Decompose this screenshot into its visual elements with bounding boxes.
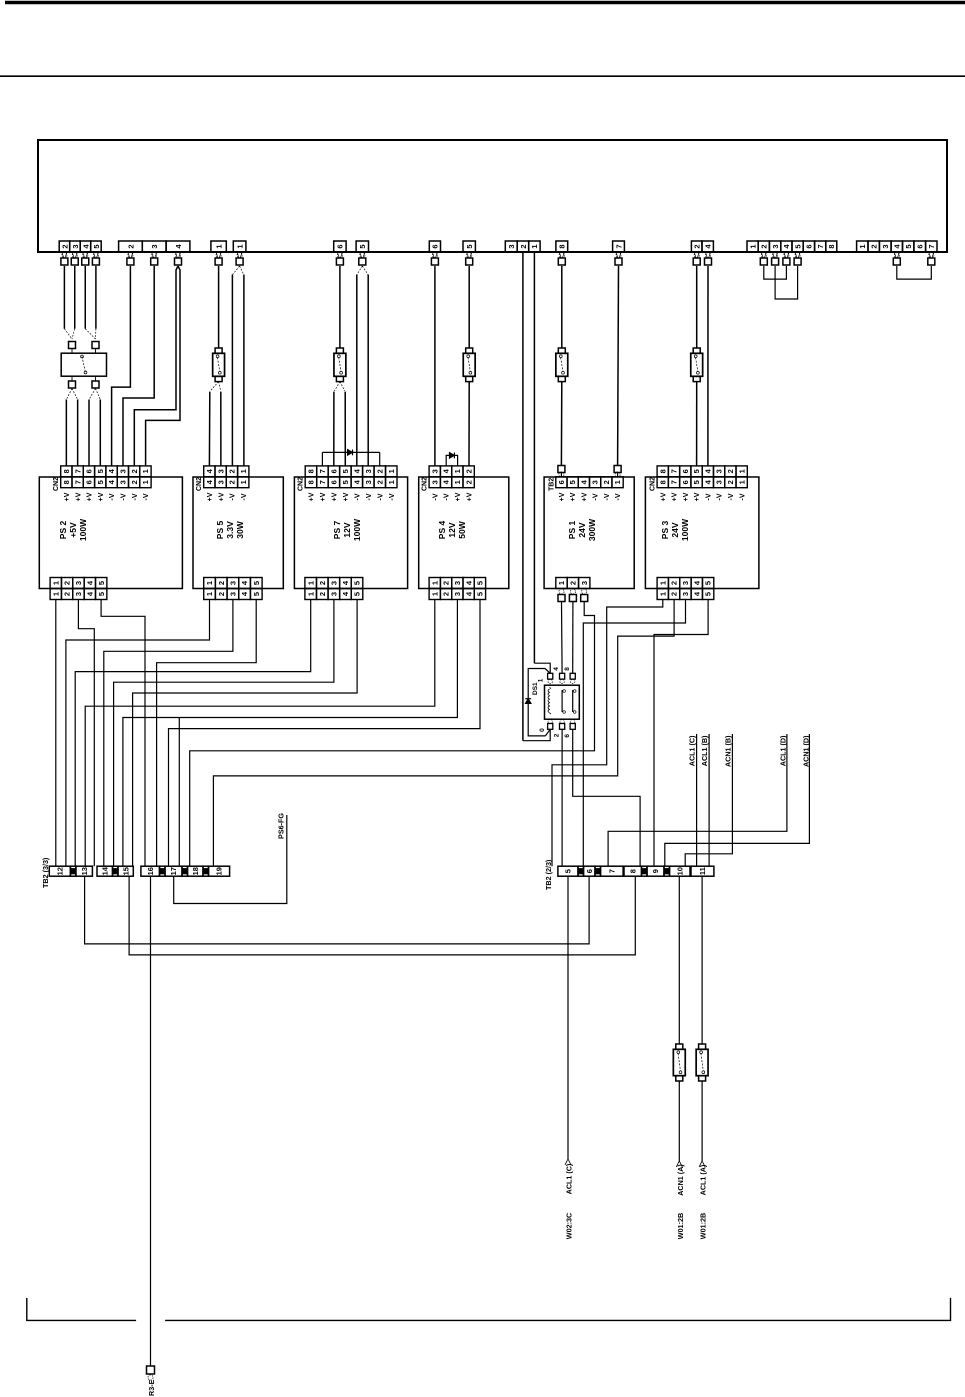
svg-text:24V: 24V	[670, 522, 680, 537]
svg-text:2: 2	[693, 244, 702, 248]
svg-text:16: 16	[146, 867, 155, 875]
svg-text:3: 3	[580, 581, 589, 585]
svg-text:4: 4	[704, 244, 713, 249]
svg-text:1: 1	[858, 244, 867, 248]
svg-text:2: 2	[670, 592, 679, 596]
svg-text:4: 4	[85, 591, 94, 596]
svg-text:1: 1	[453, 469, 462, 473]
svg-text:-V: -V	[143, 493, 150, 500]
svg-text:PS 3: PS 3	[660, 521, 670, 540]
svg-text:1: 1	[51, 581, 60, 585]
svg-text:4: 4	[464, 580, 473, 585]
svg-text:+V: +V	[455, 492, 462, 501]
svg-text:3: 3	[229, 592, 238, 596]
svg-text:1: 1	[737, 480, 746, 484]
svg-text:19: 19	[215, 867, 224, 875]
svg-text:1: 1	[530, 244, 539, 248]
svg-text:+V: +V	[660, 492, 667, 501]
svg-text:PS 4: PS 4	[437, 521, 447, 540]
svg-text:5: 5	[476, 592, 485, 596]
svg-text:3: 3	[453, 592, 462, 596]
svg-text:5: 5	[793, 244, 802, 248]
svg-text:ACL1 (C): ACL1 (C)	[688, 735, 697, 766]
svg-text:2: 2	[130, 469, 139, 473]
svg-text:6: 6	[681, 480, 690, 484]
svg-text:4: 4	[205, 479, 214, 484]
svg-text:8: 8	[558, 244, 567, 248]
svg-text:7: 7	[73, 469, 82, 473]
svg-text:9: 9	[651, 869, 660, 873]
svg-text:4: 4	[692, 580, 701, 585]
svg-text:PS 5: PS 5	[215, 521, 225, 540]
svg-text:1: 1	[51, 592, 60, 596]
svg-text:-V: -V	[366, 493, 373, 500]
svg-text:2: 2	[519, 244, 528, 248]
svg-text:5: 5	[96, 480, 105, 484]
svg-text:3: 3	[329, 592, 338, 596]
svg-text:1: 1	[205, 581, 214, 585]
svg-text:3: 3	[681, 592, 690, 596]
svg-text:4: 4	[782, 244, 791, 249]
svg-text:4: 4	[107, 468, 116, 473]
svg-text:DS1: DS1	[532, 682, 539, 695]
svg-text:4: 4	[692, 591, 701, 596]
svg-text:11: 11	[698, 867, 707, 875]
svg-text:1: 1	[239, 480, 248, 484]
svg-text:+V: +V	[75, 492, 82, 501]
svg-text:+V: +V	[218, 492, 225, 501]
svg-text:2: 2	[217, 592, 226, 596]
svg-text:5: 5	[704, 592, 713, 596]
svg-text:4: 4	[352, 468, 361, 473]
svg-text:7: 7	[927, 244, 936, 248]
svg-text:1: 1	[205, 592, 214, 596]
svg-text:2: 2	[726, 469, 735, 473]
svg-text:4: 4	[442, 479, 451, 484]
svg-text:+V: +V	[207, 492, 214, 501]
svg-text:-V: -V	[354, 493, 361, 500]
svg-text:6: 6	[557, 480, 566, 484]
svg-text:-V: -V	[132, 493, 139, 500]
svg-text:+V: +V	[570, 492, 577, 501]
svg-text:4: 4	[174, 244, 183, 249]
svg-text:2: 2	[375, 480, 384, 484]
svg-text:5: 5	[692, 469, 701, 473]
svg-text:PS 7: PS 7	[332, 521, 342, 540]
svg-text:CN2: CN2	[298, 477, 305, 491]
svg-text:6: 6	[85, 469, 94, 473]
svg-text:100W: 100W	[680, 518, 690, 541]
svg-text:4: 4	[107, 479, 116, 484]
svg-text:3: 3	[364, 469, 373, 473]
svg-text:8: 8	[827, 244, 836, 248]
svg-text:2: 2	[60, 244, 69, 248]
svg-text:2: 2	[760, 244, 769, 248]
svg-text:-V: -V	[230, 493, 237, 500]
svg-text:PS 2: PS 2	[58, 521, 68, 540]
svg-text:3: 3	[715, 480, 724, 484]
svg-text:ACL1 (B): ACL1 (B)	[700, 735, 709, 766]
svg-text:3: 3	[118, 480, 127, 484]
svg-text:2: 2	[318, 581, 327, 585]
svg-text:+V: +V	[87, 492, 94, 501]
svg-text:2: 2	[375, 469, 384, 473]
svg-text:+V: +V	[466, 492, 473, 501]
svg-text:2: 2	[726, 480, 735, 484]
svg-text:-V: -V	[739, 493, 746, 500]
svg-text:15: 15	[121, 867, 130, 875]
svg-text:3: 3	[364, 480, 373, 484]
svg-text:17: 17	[169, 867, 178, 875]
svg-text:-V: -V	[389, 493, 396, 500]
svg-text:1: 1	[239, 469, 248, 473]
svg-text:3: 3	[771, 244, 780, 248]
svg-text:1: 1	[658, 581, 667, 585]
svg-text:6: 6	[805, 244, 814, 248]
svg-text:-V: -V	[705, 493, 712, 500]
svg-text:2: 2	[553, 733, 560, 737]
svg-text:3: 3	[229, 581, 238, 585]
svg-text:100W: 100W	[352, 518, 362, 541]
svg-text:5: 5	[692, 480, 701, 484]
svg-text:1: 1	[306, 592, 315, 596]
svg-text:CN2: CN2	[53, 477, 60, 491]
svg-text:14: 14	[100, 866, 109, 875]
svg-text:5: 5	[97, 581, 106, 585]
svg-text:2: 2	[442, 592, 451, 596]
svg-text:6: 6	[564, 734, 571, 738]
svg-text:+V: +V	[694, 492, 701, 501]
svg-text:6: 6	[681, 469, 690, 473]
svg-text:ACL1 (C): ACL1 (C)	[565, 1163, 574, 1194]
svg-text:5: 5	[341, 480, 350, 484]
svg-text:5: 5	[568, 480, 577, 484]
svg-text:PS 1: PS 1	[567, 521, 577, 540]
svg-text:W01:2B: W01:2B	[699, 1213, 708, 1239]
svg-text:1: 1	[235, 244, 244, 248]
svg-text:-V: -V	[717, 493, 724, 500]
svg-text:-V: -V	[241, 493, 248, 500]
svg-text:1: 1	[306, 581, 315, 585]
svg-text:+V: +V	[559, 492, 566, 501]
svg-text:0: 0	[539, 728, 546, 732]
svg-text:4: 4	[553, 667, 560, 671]
svg-text:1: 1	[537, 678, 544, 682]
svg-text:TB2 (2/3): TB2 (2/3)	[544, 859, 553, 890]
svg-text:4: 4	[341, 580, 350, 585]
svg-text:2: 2	[442, 581, 451, 585]
svg-text:-V: -V	[120, 493, 127, 500]
svg-text:5: 5	[704, 581, 713, 585]
svg-text:8: 8	[62, 480, 71, 484]
svg-text:4: 4	[579, 479, 588, 484]
svg-text:6: 6	[585, 869, 594, 873]
svg-text:+V: +V	[98, 492, 105, 501]
svg-text:+5V: +5V	[68, 522, 78, 538]
svg-text:-V: -V	[109, 493, 116, 500]
svg-text:-V: -V	[377, 493, 384, 500]
svg-text:2: 2	[870, 244, 879, 248]
svg-text:3: 3	[216, 469, 225, 473]
svg-text:ACN1 (A): ACN1 (A)	[676, 1164, 685, 1196]
svg-text:5: 5	[564, 869, 573, 873]
svg-text:3: 3	[329, 581, 338, 585]
svg-text:5: 5	[97, 592, 106, 596]
svg-text:3: 3	[74, 592, 83, 596]
svg-text:-V: -V	[432, 493, 439, 500]
svg-text:12V: 12V	[342, 522, 352, 537]
svg-text:ACN1 (B): ACN1 (B)	[724, 735, 733, 767]
svg-text:PS6-FG: PS6-FG	[277, 813, 286, 839]
svg-text:6: 6	[329, 480, 338, 484]
svg-text:4: 4	[703, 468, 712, 473]
svg-text:6: 6	[329, 469, 338, 473]
svg-text:1: 1	[387, 480, 396, 484]
svg-text:2: 2	[63, 592, 72, 596]
svg-text:5: 5	[96, 469, 105, 473]
svg-text:+V: +V	[581, 492, 588, 501]
svg-text:3: 3	[118, 469, 127, 473]
svg-text:50W: 50W	[457, 520, 467, 538]
svg-text:2: 2	[228, 469, 237, 473]
svg-text:7: 7	[607, 869, 616, 873]
svg-text:6: 6	[431, 244, 440, 248]
svg-text:24V: 24V	[577, 522, 587, 537]
svg-text:-V: -V	[444, 493, 451, 500]
svg-text:6: 6	[85, 480, 94, 484]
svg-text:18: 18	[191, 867, 200, 875]
svg-text:1: 1	[453, 480, 462, 484]
svg-text:2: 2	[568, 581, 577, 585]
svg-text:4: 4	[205, 468, 214, 473]
svg-text:CN2: CN2	[422, 477, 429, 491]
svg-text:4: 4	[442, 468, 451, 473]
svg-text:+V: +V	[64, 492, 71, 501]
svg-text:6: 6	[916, 244, 925, 248]
svg-text:1: 1	[141, 469, 150, 473]
svg-text:4: 4	[893, 244, 902, 249]
svg-text:2: 2	[130, 480, 139, 484]
svg-text:TB2: TB2	[548, 478, 555, 491]
svg-text:3.3V: 3.3V	[225, 521, 235, 539]
svg-text:5: 5	[904, 244, 913, 248]
svg-text:+V: +V	[331, 492, 338, 501]
svg-text:4: 4	[703, 479, 712, 484]
svg-text:1: 1	[430, 581, 439, 585]
svg-text:3: 3	[681, 581, 690, 585]
svg-text:3: 3	[71, 244, 80, 248]
svg-text:1: 1	[613, 480, 622, 484]
svg-text:CN2: CN2	[196, 477, 203, 491]
svg-text:4: 4	[240, 591, 249, 596]
svg-text:7: 7	[816, 244, 825, 248]
svg-text:3: 3	[453, 581, 462, 585]
svg-text:1: 1	[748, 244, 757, 248]
svg-text:3: 3	[74, 581, 83, 585]
svg-text:2: 2	[217, 581, 226, 585]
svg-text:2: 2	[126, 244, 135, 248]
svg-text:5: 5	[476, 581, 485, 585]
svg-text:2: 2	[228, 480, 237, 484]
svg-text:3: 3	[216, 480, 225, 484]
svg-text:5: 5	[92, 244, 101, 248]
svg-text:2: 2	[464, 469, 473, 473]
svg-text:+V: +V	[309, 492, 316, 501]
svg-text:1: 1	[737, 469, 746, 473]
svg-text:R3-E: R3-E	[147, 1379, 156, 1396]
svg-text:7: 7	[670, 480, 679, 484]
svg-text:1: 1	[214, 244, 223, 248]
svg-text:8: 8	[628, 869, 637, 873]
svg-text:4: 4	[85, 580, 94, 585]
svg-text:4: 4	[352, 479, 361, 484]
svg-text:300W: 300W	[587, 518, 597, 541]
svg-text:4: 4	[81, 244, 90, 249]
svg-text:5: 5	[252, 592, 261, 596]
svg-text:12: 12	[55, 867, 64, 875]
svg-text:1: 1	[658, 592, 667, 596]
svg-text:8: 8	[62, 469, 71, 473]
svg-text:2: 2	[63, 581, 72, 585]
svg-text:5: 5	[353, 592, 362, 596]
svg-text:5: 5	[358, 244, 367, 248]
svg-text:7: 7	[614, 244, 623, 248]
svg-text:6: 6	[336, 244, 345, 248]
svg-text:+V: +V	[683, 492, 690, 501]
svg-text:8: 8	[307, 480, 316, 484]
svg-text:2: 2	[318, 592, 327, 596]
svg-text:100W: 100W	[78, 518, 88, 541]
svg-text:1: 1	[141, 480, 150, 484]
svg-text:7: 7	[670, 469, 679, 473]
svg-text:3: 3	[507, 244, 516, 248]
svg-text:3: 3	[150, 244, 159, 248]
svg-text:4: 4	[341, 591, 350, 596]
svg-text:2: 2	[602, 480, 611, 484]
svg-text:2: 2	[670, 581, 679, 585]
svg-text:8: 8	[564, 667, 571, 671]
svg-text:+V: +V	[320, 492, 327, 501]
svg-text:3: 3	[715, 469, 724, 473]
svg-text:CN2: CN2	[650, 477, 657, 491]
svg-text:7: 7	[318, 469, 327, 473]
svg-text:5: 5	[341, 469, 350, 473]
svg-text:30W: 30W	[235, 520, 245, 538]
svg-text:5: 5	[465, 244, 474, 248]
svg-text:W02:3C: W02:3C	[565, 1213, 574, 1239]
svg-text:3: 3	[430, 480, 439, 484]
svg-text:+V: +V	[343, 492, 350, 501]
svg-text:W01:2B: W01:2B	[676, 1213, 685, 1239]
svg-text:1: 1	[387, 469, 396, 473]
svg-text:ACL1 (D): ACL1 (D)	[779, 735, 788, 766]
svg-text:3: 3	[881, 244, 890, 248]
svg-text:+V: +V	[672, 492, 679, 501]
svg-text:1: 1	[557, 581, 566, 585]
svg-text:5: 5	[353, 581, 362, 585]
svg-text:12V: 12V	[447, 522, 457, 537]
svg-text:3: 3	[430, 469, 439, 473]
svg-text:8: 8	[658, 469, 667, 473]
svg-text:7: 7	[73, 480, 82, 484]
svg-text:-V: -V	[604, 493, 611, 500]
svg-text:-V: -V	[728, 493, 735, 500]
svg-text:10: 10	[675, 867, 684, 875]
svg-text:5: 5	[252, 581, 261, 585]
svg-text:1: 1	[430, 592, 439, 596]
svg-text:8: 8	[307, 469, 316, 473]
svg-text:-V: -V	[593, 493, 600, 500]
svg-text:8: 8	[658, 480, 667, 484]
svg-text:ACL1 (A): ACL1 (A)	[699, 1164, 708, 1195]
svg-text:2: 2	[464, 480, 473, 484]
svg-text:-V: -V	[615, 493, 622, 500]
svg-text:7: 7	[318, 480, 327, 484]
svg-text:4: 4	[464, 591, 473, 596]
svg-text:13: 13	[80, 867, 89, 875]
svg-text:4: 4	[240, 580, 249, 585]
svg-text:3: 3	[591, 480, 600, 484]
